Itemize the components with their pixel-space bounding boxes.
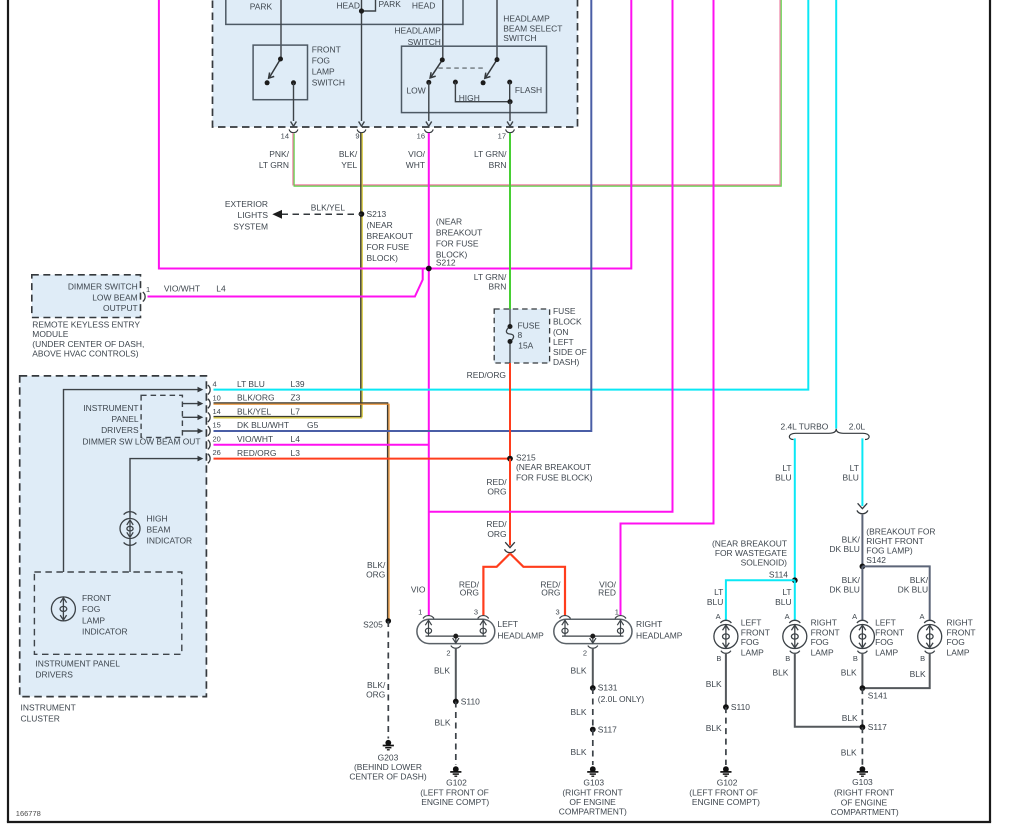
svg-text:DRIVERS: DRIVERS — [101, 425, 139, 435]
svg-text:PARK: PARK — [250, 1, 273, 11]
svg-text:PARK: PARK — [379, 0, 402, 9]
svg-text:BLOCK: BLOCK — [553, 316, 582, 326]
label near breakout for wastegate solenoid — [712, 538, 788, 579]
svg-text:BEAM: BEAM — [147, 524, 171, 534]
fuse 8 15A — [506, 309, 513, 363]
svg-text:PNK/: PNK/ — [269, 149, 289, 159]
svg-text:SWITCH: SWITCH — [503, 33, 536, 43]
svg-text:B: B — [716, 654, 721, 663]
label FRONT FOG LAMP INDICATOR — [82, 593, 128, 636]
junction dot on head wire — [359, 8, 364, 13]
svg-text:(NEAR: (NEAR — [436, 217, 462, 227]
connector pin 20 cluster — [208, 440, 210, 450]
svg-text:BRN: BRN — [489, 160, 507, 170]
wire lt blu from top to engine split — [835, 0, 837, 429]
svg-text:LOW: LOW — [406, 86, 425, 96]
svg-text:FOR WASTEGATE: FOR WASTEGATE — [715, 548, 788, 558]
svg-text:(LEFT FRONT OF: (LEFT FRONT OF — [420, 787, 489, 797]
svg-text:FOG: FOG — [82, 604, 100, 614]
svg-text:LOW BEAM: LOW BEAM — [92, 292, 137, 302]
label LEFT HEADLAMP — [497, 619, 544, 640]
svg-text:G203: G203 — [378, 752, 399, 762]
connector pin 16 — [424, 129, 433, 132]
fog lamp 1 left front fog lamp — [714, 620, 738, 653]
ground G103 right headlamp — [587, 766, 598, 776]
right headlamp — [554, 619, 632, 643]
label RIGHT HEADLAMP — [636, 619, 683, 640]
svg-text:G102: G102 — [446, 778, 467, 788]
svg-text:RED: RED — [598, 587, 616, 597]
svg-text:L4: L4 — [216, 284, 226, 294]
beam select switch right arm — [485, 60, 497, 79]
svg-text:ORG: ORG — [541, 587, 560, 597]
svg-text:BLK: BLK — [772, 668, 788, 678]
svg-text:DK BLU/WHT: DK BLU/WHT — [237, 420, 289, 430]
svg-text:LT: LT — [782, 587, 791, 597]
svg-text:1: 1 — [146, 285, 150, 294]
svg-text:BLK: BLK — [435, 717, 451, 727]
instrument panel drivers box 2 — [34, 572, 181, 654]
svg-text:LAMP: LAMP — [312, 66, 335, 76]
svg-text:HEAD: HEAD — [336, 1, 359, 11]
svg-text:BLK: BLK — [841, 668, 857, 678]
label near breakout for fuse block (S213) — [367, 220, 413, 263]
wire dk blu/wht G5 — [214, 0, 592, 431]
svg-text:15: 15 — [213, 421, 221, 430]
label FUSE BLOCK (ON LEFT SIDE OF DASH) — [553, 306, 587, 367]
wire front fog switch output to pin 14 — [291, 83, 297, 126]
label LT BLU 2.0 branch — [842, 463, 858, 482]
svg-text:MODULE: MODULE — [32, 329, 68, 339]
svg-text:ABOVE HVAC CONTROLS): ABOVE HVAC CONTROLS) — [32, 348, 138, 358]
connector pin 26 cluster — [208, 454, 210, 464]
svg-text:3: 3 — [556, 608, 560, 617]
wire blk left headlamp — [455, 648, 457, 702]
wire blk/dk blu connector to S142 — [861, 515, 863, 567]
svg-text:Z3: Z3 — [291, 393, 301, 403]
label BLK/DK BLU upper — [829, 534, 860, 554]
connector pin 17 — [506, 129, 515, 132]
svg-text:OUTPUT: OUTPUT — [103, 303, 138, 313]
svg-text:3: 3 — [474, 608, 478, 617]
label HEADLAMP BEAM SELECT SWITCH — [503, 14, 562, 43]
label BLK/YEL — [339, 149, 358, 170]
svg-text:2: 2 — [583, 649, 587, 658]
label RED/ORG upper — [486, 477, 507, 496]
wire park feed to front fog lamp switch — [280, 0, 282, 59]
wire blk/dk blu S142 to left front fog lamp 2 — [861, 566, 863, 620]
svg-text:10: 10 — [213, 393, 221, 402]
connector pin 1 dimmer — [143, 292, 145, 302]
svg-text:(RIGHT FRONT: (RIGHT FRONT — [562, 787, 622, 797]
svg-text:BREAKOUT: BREAKOUT — [436, 228, 482, 238]
svg-text:G5: G5 — [307, 420, 319, 430]
label BLK/DK BLU drop lamp3 — [829, 575, 860, 595]
connector pin 14 cluster — [208, 413, 210, 423]
svg-text:LEFT: LEFT — [741, 618, 762, 628]
label RED/ORG right branch — [540, 579, 561, 597]
svg-text:HEADLAMP: HEADLAMP — [636, 630, 683, 640]
splice S131 — [590, 685, 596, 691]
label INSTRUMENT PANEL DRIVERS (bottom) — [35, 659, 120, 680]
splice S114 — [792, 577, 798, 583]
svg-text:SWITCH: SWITCH — [312, 77, 345, 87]
wire pin 4 internal elbow — [64, 390, 199, 572]
headlamp switch assembly dashed box — [213, 0, 578, 127]
splice S142 — [860, 564, 866, 570]
svg-text:PANEL: PANEL — [112, 414, 139, 424]
label LT GRN/BRN at fuse — [474, 272, 507, 292]
label LT GRN/BRN — [474, 149, 507, 170]
svg-text:RIGHT: RIGHT — [636, 619, 662, 629]
svg-text:LEFT: LEFT — [497, 619, 518, 629]
ground G102 fog — [720, 766, 731, 776]
svg-text:14: 14 — [213, 407, 221, 416]
FLASH contact and wire — [507, 80, 512, 85]
svg-text:BLU: BLU — [707, 597, 723, 607]
splice S110 left headlamp — [453, 699, 459, 705]
svg-text:DRIVERS: DRIVERS — [35, 670, 73, 680]
svg-text:B: B — [920, 654, 925, 663]
svg-text:HIGH: HIGH — [459, 93, 480, 103]
svg-text:HEADLAMP: HEADLAMP — [503, 14, 550, 24]
svg-text:FRONT: FRONT — [875, 627, 904, 637]
svg-text:B: B — [853, 654, 858, 663]
svg-text:OF ENGINE: OF ENGINE — [841, 797, 888, 807]
svg-text:RIGHT FRONT: RIGHT FRONT — [866, 536, 924, 546]
svg-text:WHT: WHT — [406, 160, 425, 170]
svg-text:1: 1 — [418, 608, 422, 617]
svg-text:BLK: BLK — [571, 665, 587, 675]
label FRONT FOG LAMP SWITCH — [312, 44, 345, 87]
label LT BLU drop lamp2 — [775, 587, 791, 607]
ground G103 fog — [857, 766, 868, 776]
svg-text:FRONT: FRONT — [312, 44, 341, 54]
svg-text:A: A — [852, 612, 857, 621]
wire vio/red to right headlamp — [621, 0, 714, 616]
svg-text:LT GRN/: LT GRN/ — [474, 149, 507, 159]
svg-text:ENGINE COMPT): ENGINE COMPT) — [421, 797, 489, 807]
svg-text:BLK/: BLK/ — [842, 575, 861, 585]
svg-text:BLK: BLK — [841, 747, 857, 757]
svg-text:2.4L TURBO: 2.4L TURBO — [780, 421, 828, 431]
svg-text:2: 2 — [446, 649, 450, 658]
svg-text:SOLENOID): SOLENOID) — [741, 557, 788, 567]
wire red/org S215 to connector — [509, 459, 511, 546]
svg-text:VIO/: VIO/ — [408, 149, 426, 159]
wire blk fog lamp 2 to S117 — [795, 653, 863, 727]
svg-text:17: 17 — [498, 132, 506, 141]
label BLK/DK BLU drop lamp4 — [898, 575, 929, 595]
svg-text:A: A — [716, 612, 721, 621]
label RED/ORG above connector — [486, 519, 507, 539]
svg-text:FLASH: FLASH — [515, 85, 542, 95]
svg-text:HEADLAMP: HEADLAMP — [497, 630, 544, 640]
svg-text:REMOTE KEYLESS ENTRY: REMOTE KEYLESS ENTRY — [32, 320, 140, 330]
svg-text:(BREAKOUT FOR: (BREAKOUT FOR — [866, 526, 935, 536]
wire vio/wht to right fog feed — [429, 0, 673, 512]
wire pin 26 internal elbow — [130, 459, 199, 519]
svg-text:S141: S141 — [868, 690, 888, 700]
connector pin 4 cluster — [208, 385, 210, 395]
label DIMMER SWITCH LOW BEAM OUTPUT — [68, 281, 138, 313]
junction dot high/flash — [507, 99, 512, 104]
svg-text:(NEAR BREAKOUT: (NEAR BREAKOUT — [712, 538, 787, 548]
inline connector 2.0L — [857, 503, 868, 513]
svg-text:LT: LT — [714, 587, 723, 597]
wire blk/org Z3 — [214, 403, 390, 621]
svg-text:BREAKOUT: BREAKOUT — [367, 231, 413, 241]
ground G102 left — [450, 766, 461, 776]
connector pin 14 — [289, 129, 298, 132]
wire high beam indicator bottom — [129, 539, 131, 573]
svg-text:FUSE: FUSE — [553, 306, 576, 316]
svg-text:BEAM SELECT: BEAM SELECT — [503, 23, 562, 33]
wire lt blu S114 to right front fog lamp — [794, 580, 796, 620]
svg-text:26: 26 — [213, 448, 221, 457]
svg-text:G102: G102 — [717, 778, 738, 788]
svg-text:DK BLU: DK BLU — [829, 584, 859, 594]
svg-text:LEFT: LEFT — [875, 618, 896, 628]
svg-text:S142: S142 — [866, 555, 886, 565]
label HIGH BEAM INDICATOR — [147, 513, 193, 545]
svg-text:COMPARTMENT): COMPARTMENT) — [831, 807, 899, 817]
label REMOTE KEYLESS ENTRY MODULE — [32, 320, 144, 359]
svg-text:G103: G103 — [583, 778, 604, 788]
fog lamp 3 left front fog lamp (2.0L) — [850, 620, 874, 653]
wire blk/yel L7 — [214, 417, 363, 418]
svg-text:S114: S114 — [769, 570, 788, 580]
svg-text:SYSTEM: SYSTEM — [233, 221, 268, 231]
wire blk fog lamp 4 to S141 — [862, 653, 929, 688]
svg-text:BLK: BLK — [706, 679, 722, 689]
svg-text:FOG: FOG — [811, 637, 829, 647]
svg-text:(NEAR BREAKOUT: (NEAR BREAKOUT — [516, 462, 591, 472]
wire lt blu S114 to left front fog lamp — [726, 580, 795, 620]
svg-text:INSTRUMENT: INSTRUMENT — [21, 703, 76, 713]
svg-text:BLK/YEL: BLK/YEL — [311, 203, 346, 213]
svg-text:ORG: ORG — [487, 486, 506, 496]
svg-text:BLK/: BLK/ — [842, 534, 861, 544]
wire blk dashed S131 to S117 — [592, 688, 594, 730]
svg-text:(2.0L ONLY): (2.0L ONLY) — [598, 694, 645, 704]
svg-text:LAMP: LAMP — [82, 615, 105, 625]
wire blk/dk blu S142 to right front fog lamp 2 — [862, 566, 929, 620]
svg-text:B: B — [785, 654, 790, 663]
wire lt grn/brn pin 17 to fuse block — [509, 133, 511, 309]
svg-text:CENTER OF DASH): CENTER OF DASH) — [349, 771, 427, 781]
svg-text:DIMMER SWITCH: DIMMER SWITCH — [68, 281, 138, 291]
svg-text:BLK: BLK — [706, 723, 722, 733]
label BLK/ORG above S205 — [366, 560, 386, 580]
svg-text:A: A — [919, 612, 924, 621]
svg-text:RIGHT: RIGHT — [947, 618, 973, 628]
svg-text:LAMP: LAMP — [875, 647, 898, 657]
svg-text:FOG: FOG — [875, 637, 893, 647]
svg-text:BLOCK): BLOCK) — [367, 253, 399, 263]
svg-text:RED/: RED/ — [486, 519, 507, 529]
svg-text:FOR FUSE: FOR FUSE — [367, 242, 410, 252]
label near breakout for fuse block (S212) — [436, 217, 482, 268]
svg-text:S212: S212 — [436, 257, 456, 267]
splice S117 — [590, 727, 596, 733]
fog lamp 2 right front fog lamp — [783, 620, 807, 653]
splice S215 — [507, 456, 513, 462]
splice S141 — [860, 685, 866, 691]
svg-text:SIDE OF: SIDE OF — [553, 347, 587, 357]
wire lt blu L39 — [214, 0, 809, 390]
svg-text:1: 1 — [615, 608, 619, 617]
svg-text:S110: S110 — [731, 702, 750, 712]
label G102 — [420, 778, 489, 807]
svg-text:VIO/WHT: VIO/WHT — [164, 284, 200, 294]
wire blk right headlamp — [592, 648, 594, 688]
svg-text:BLK/: BLK/ — [367, 560, 386, 570]
wire vio/wht dimmer output to S212 — [148, 269, 423, 297]
svg-text:ORG: ORG — [366, 690, 385, 700]
front fog lamp indicator — [51, 597, 75, 621]
svg-text:BLU: BLU — [842, 472, 858, 482]
svg-text:(RIGHT FRONT: (RIGHT FRONT — [834, 788, 894, 798]
headlamp switch inner box — [226, 0, 463, 24]
svg-text:INSTRUMENT PANEL: INSTRUMENT PANEL — [35, 659, 120, 669]
svg-text:FOG: FOG — [741, 637, 759, 647]
wire pnk/lt grn pin14 to top right — [293, 0, 781, 186]
svg-text:L39: L39 — [291, 379, 305, 389]
svg-text:BLK: BLK — [842, 713, 858, 723]
svg-text:LAMP: LAMP — [741, 647, 764, 657]
svg-text:BLU: BLU — [775, 597, 791, 607]
mechanical link dashed — [438, 67, 485, 69]
svg-text:BLK/ORG: BLK/ORG — [237, 393, 275, 403]
HIGH contact and wire — [453, 80, 458, 85]
svg-text:A: A — [785, 612, 790, 621]
svg-text:ORG: ORG — [460, 587, 479, 597]
svg-text:HIGH: HIGH — [147, 513, 168, 523]
label G103 fog — [831, 777, 899, 817]
label G102 fog — [689, 778, 760, 807]
headlamp beam select switch box — [402, 46, 547, 112]
svg-text:BLK/: BLK/ — [910, 575, 929, 585]
wire lt blu 2.0L branch to connector — [861, 438, 863, 506]
svg-text:FRONT: FRONT — [82, 593, 111, 603]
fuse block box — [494, 309, 549, 363]
svg-text:S131: S131 — [598, 683, 618, 693]
svg-text:RIGHT: RIGHT — [811, 618, 837, 628]
svg-text:DIMMER SW LOW BEAM OUT: DIMMER SW LOW BEAM OUT — [82, 437, 200, 447]
connector pin 15 cluster — [208, 426, 210, 436]
wire red/org from fuse to S215 — [509, 363, 511, 459]
svg-text:L4: L4 — [291, 434, 301, 444]
svg-text:S117: S117 — [868, 722, 887, 732]
left headlamp — [417, 619, 495, 643]
instrument cluster box — [20, 376, 207, 697]
connector pin 9 — [357, 129, 366, 132]
svg-text:FRONT: FRONT — [741, 627, 770, 637]
svg-text:15A: 15A — [518, 340, 533, 350]
ground G203 — [383, 740, 394, 750]
svg-text:FOG: FOG — [312, 55, 330, 65]
svg-text:S205: S205 — [363, 620, 383, 630]
wire high beam output to pin 17 — [507, 102, 513, 127]
front fog lamp switch — [269, 59, 281, 78]
svg-text:ENGINE COMPT): ENGINE COMPT) — [692, 797, 760, 807]
splice S117 fog — [860, 724, 866, 730]
splice S212 — [426, 266, 432, 272]
svg-text:S110: S110 — [461, 697, 480, 707]
svg-text:BLK/: BLK/ — [339, 149, 358, 159]
wires into beam select switch — [443, 0, 497, 60]
wire blk dashed S117 to G103 fog — [861, 727, 863, 765]
label LT BLU 2.4 branch — [775, 463, 791, 482]
svg-text:VIO: VIO — [411, 585, 426, 595]
svg-text:(LEFT FRONT OF: (LEFT FRONT OF — [689, 787, 758, 797]
label VIO/RED — [598, 579, 616, 597]
svg-text:20: 20 — [213, 434, 221, 443]
svg-text:INDICATOR: INDICATOR — [82, 626, 128, 636]
splice S205 — [386, 618, 392, 624]
svg-text:BLK: BLK — [910, 669, 926, 679]
svg-text:INSTRUMENT: INSTRUMENT — [83, 403, 138, 413]
wire red/org split to headlamps — [483, 554, 565, 616]
svg-text:LAMP: LAMP — [947, 647, 970, 657]
label EXTERIOR LIGHTS SYSTEM — [225, 199, 269, 231]
svg-text:EXTERIOR: EXTERIOR — [225, 199, 268, 209]
svg-text:YEL: YEL — [341, 160, 357, 170]
svg-text:16: 16 — [417, 132, 425, 141]
label G203 — [349, 752, 427, 781]
wire vio/wht L4 pin 20 — [214, 444, 429, 446]
svg-text:COMPARTMENT): COMPARTMENT) — [559, 806, 627, 816]
svg-text:LIGHTS: LIGHTS — [238, 210, 269, 220]
arrow driver to pin 10 — [182, 403, 198, 405]
label PNK/LT GRN — [259, 149, 290, 170]
splice S213 — [359, 211, 365, 217]
svg-text:HEADLAMP: HEADLAMP — [394, 25, 441, 35]
svg-text:BRN: BRN — [488, 282, 506, 292]
wire blk/yel pin9 down to splice S213 — [361, 133, 362, 417]
label INSTRUMENT CLUSTER — [21, 703, 76, 724]
svg-text:BLU: BLU — [775, 472, 791, 482]
svg-text:FOR FUSE BLOCK): FOR FUSE BLOCK) — [516, 473, 593, 483]
svg-text:DASH): DASH) — [553, 357, 579, 367]
splice S110 fog — [723, 704, 729, 710]
svg-text:L3: L3 — [291, 448, 301, 458]
arrow driver to pin 15 — [182, 430, 198, 432]
wire blk/org dashed to ground — [387, 621, 389, 739]
svg-text:S117: S117 — [598, 725, 617, 735]
svg-text:(ON: (ON — [553, 327, 568, 337]
svg-text:2.0L: 2.0L — [849, 421, 866, 431]
svg-text:(NEAR: (NEAR — [367, 220, 393, 230]
svg-text:FOG: FOG — [947, 637, 965, 647]
svg-text:9: 9 — [355, 132, 359, 141]
high beam indicator — [120, 512, 140, 546]
svg-text:FOR FUSE: FOR FUSE — [436, 239, 479, 249]
svg-text:LEFT: LEFT — [553, 337, 574, 347]
svg-text:FOG LAMP): FOG LAMP) — [866, 545, 913, 555]
instrument panel drivers box 1 — [141, 395, 182, 437]
wire low beam output to pin 16 — [426, 82, 432, 126]
svg-text:BLK: BLK — [571, 747, 587, 757]
wire blk fog lamp 3 to S141 — [861, 653, 863, 688]
svg-text:14: 14 — [281, 132, 289, 141]
label VIO/WHT — [406, 149, 426, 170]
wire blk dashed S117 to G103 — [592, 730, 594, 766]
wire blk dashed to G102 fog — [725, 707, 727, 765]
connector pin 10 cluster — [208, 399, 210, 409]
wire lt blu 2.4L branch to S114 — [794, 438, 796, 580]
